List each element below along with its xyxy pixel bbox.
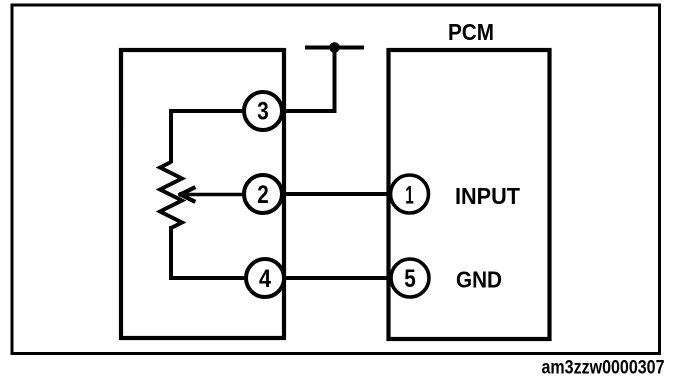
wire pin4 to pin5 xyxy=(286,276,389,280)
wire power rail xyxy=(305,46,364,50)
pin 5 xyxy=(391,259,429,297)
PCM box xyxy=(389,50,550,339)
svg-text:1: 1 xyxy=(405,182,414,210)
wiper arrowhead xyxy=(181,188,194,201)
wire wiper to pin2 xyxy=(181,193,244,197)
wire pin3 to junction drop xyxy=(284,109,337,113)
pin 3 xyxy=(244,92,282,130)
svg-text:5: 5 xyxy=(404,265,416,293)
svg-text:3: 3 xyxy=(257,98,269,126)
pin 2 xyxy=(244,175,282,213)
svg-text:4: 4 xyxy=(259,265,271,293)
svg-text:PCM: PCM xyxy=(448,19,494,45)
potentiometer R1 zigzag xyxy=(160,162,182,228)
svg-text:INPUT: INPUT xyxy=(455,183,521,209)
wire vertical from junction xyxy=(333,48,337,114)
svg-text:am3zzw0000307: am3zzw0000307 xyxy=(542,358,665,376)
pin 4 xyxy=(246,259,284,297)
node junction dot xyxy=(329,42,340,53)
wire pin3 left to potentiometer top xyxy=(171,111,242,163)
svg-text:GND: GND xyxy=(456,267,502,293)
wire potentiometer bottom to pin4 xyxy=(171,226,246,278)
wire pin2 to pin1 xyxy=(284,192,388,196)
pin 1 xyxy=(391,175,429,213)
sensor box (left) xyxy=(121,50,284,338)
svg-text:2: 2 xyxy=(257,181,269,209)
